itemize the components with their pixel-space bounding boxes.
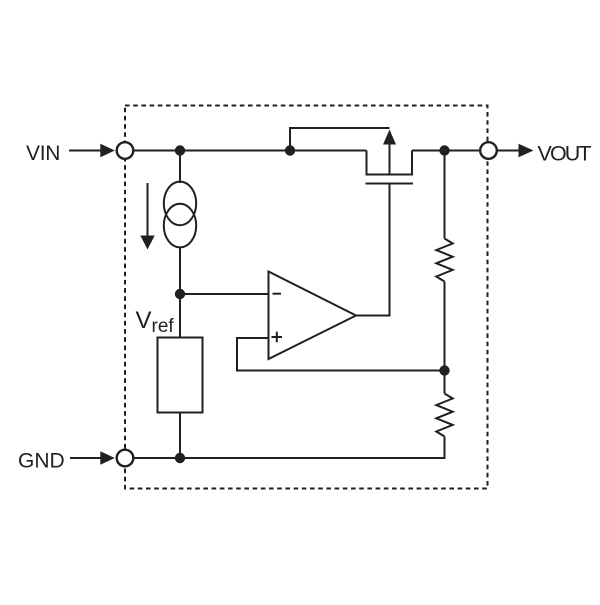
resistor R1 (upper feedback resistor) xyxy=(436,239,452,282)
node dot: ground rail / Vref return xyxy=(175,453,185,463)
GND lead arrowhead xyxy=(100,451,115,465)
wire: R1 to feedback node xyxy=(444,282,446,371)
wire: feedback node down to R2 xyxy=(444,371,446,394)
wire: current source to reference node xyxy=(179,247,181,294)
VOUT lead wire xyxy=(498,150,520,152)
dashed IC boundary box xyxy=(125,106,488,489)
wire: reference node down to Vref block xyxy=(179,294,181,338)
VIN terminal circle xyxy=(117,142,134,159)
node dot: VIN rail / current-source tap xyxy=(175,145,185,155)
current source I1 (two overlapping circles) xyxy=(164,182,196,248)
wire: VIN rail tap down to current source xyxy=(179,151,181,184)
svg-text:VOUT: VOUT xyxy=(538,142,592,166)
wire: Vref block to ground rail xyxy=(179,413,181,459)
svg-text:VIN: VIN xyxy=(26,142,60,165)
node dot: VOUT node xyxy=(439,145,449,155)
current direction arrow beside I1 xyxy=(140,183,154,250)
voltage reference block Vref xyxy=(158,338,203,413)
node dot: feedback divider node xyxy=(439,365,449,375)
svg-text:GND: GND xyxy=(18,450,65,473)
wire: VIN rail xyxy=(134,150,367,152)
node dot: reference node (Vref top / inverting input) xyxy=(175,289,185,299)
VOUT lead arrowhead xyxy=(519,144,534,158)
node dot: VIN rail / body feedback tap xyxy=(285,145,295,155)
resistor R2 (lower feedback resistor) xyxy=(436,394,452,437)
GND lead wire xyxy=(70,457,102,459)
wire: body feedback loop to MOSFET bulk arrow xyxy=(290,128,390,151)
wire: inverting input of op-amp xyxy=(180,293,269,295)
wire: VOUT node down to R1 xyxy=(444,151,446,239)
GND terminal circle xyxy=(117,450,134,467)
VIN lead wire xyxy=(69,150,102,152)
wire: non-inverting input from feedback node xyxy=(237,338,445,371)
wire: MOSFET drain to VOUT terminal xyxy=(412,150,480,152)
transistor Q1 (PMOS pass element) xyxy=(366,130,414,184)
wire: R2 to ground rail xyxy=(134,437,445,459)
op-amp U1 (error amplifier) xyxy=(269,272,357,360)
VIN lead arrowhead xyxy=(100,144,115,158)
wire: op-amp output to MOSFET gate xyxy=(356,184,390,316)
VOUT terminal circle xyxy=(480,142,497,159)
